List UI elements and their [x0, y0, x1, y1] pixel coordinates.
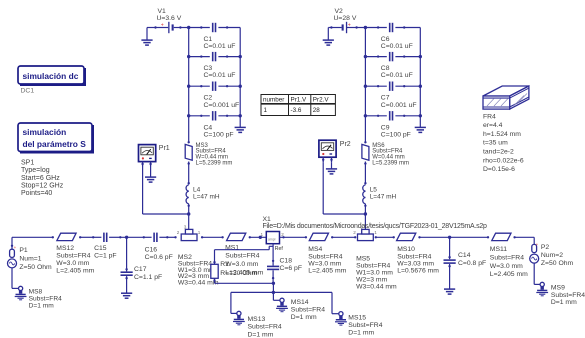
svg-text:C15: C15: [94, 245, 107, 252]
svg-text:Z=50 Ohm: Z=50 Ohm: [541, 260, 574, 267]
svg-text:C=100 pF: C=100 pF: [204, 131, 234, 138]
ground at right rail of C1-C4 bank: [235, 116, 246, 133]
svg-text:DC1: DC1: [21, 87, 35, 94]
inductor L4: [186, 182, 190, 207]
svg-text:+: +: [14, 245, 17, 250]
svg-text:C=100 pF: C=100 pF: [381, 131, 411, 138]
svg-text:Pr1: Pr1: [159, 145, 170, 152]
capacitor C7: [364, 82, 421, 91]
svg-text:W3=0.44 mm: W3=0.44 mm: [356, 283, 397, 290]
svg-text:MS12: MS12: [56, 245, 74, 252]
svg-text:P2: P2: [541, 244, 550, 251]
V2 labels: [334, 8, 357, 22]
microstrip line MS12: [57, 233, 76, 240]
Pr1 probe legs: [141, 162, 151, 167]
svg-text:C=0.01 uF: C=0.01 uF: [381, 72, 413, 79]
svg-text:V2: V2: [335, 8, 344, 15]
svg-text:C=0.6 pF: C=0.6 pF: [145, 254, 173, 261]
MS14 labels: [291, 299, 325, 321]
microstrip line MS1: [227, 233, 246, 240]
svg-text:C14: C14: [458, 252, 471, 259]
svg-text:t=35 um: t=35 um: [483, 140, 508, 147]
wire L5 to MS5 tee: [364, 204, 366, 230]
MS5 pin numbers: [353, 225, 377, 235]
svg-text:3: 3: [360, 225, 363, 230]
ground via rail wire: [231, 291, 332, 293]
svg-text:W1=3.0 mm: W1=3.0 mm: [356, 269, 393, 276]
port P1: [8, 237, 17, 268]
svg-text:C2: C2: [204, 95, 213, 102]
svg-text:2: 2: [353, 230, 356, 235]
svg-text:Pr1.V: Pr1.V: [291, 97, 308, 104]
wire to MS13: [231, 292, 237, 313]
feedback loop top wire: [215, 246, 274, 249]
MS8 labels: [29, 288, 63, 309]
capacitor C14 shunt: [444, 237, 456, 289]
svg-text:er=4.4: er=4.4: [483, 122, 503, 129]
wire MS2 to MS1: [201, 236, 224, 238]
svg-text:C6: C6: [381, 36, 390, 43]
svg-text:R1: R1: [220, 261, 229, 268]
C1 labels: [204, 36, 236, 50]
svg-text:number: number: [263, 97, 284, 104]
voltmeter probe Pr2: [319, 140, 336, 157]
two-port device X1: [261, 232, 285, 244]
svg-text:C16: C16: [145, 247, 158, 254]
svg-text:W=3.0 mm: W=3.0 mm: [490, 263, 523, 270]
svg-text:L=5.2399 mm: L=5.2399 mm: [196, 160, 233, 166]
MS11 labels: [490, 246, 528, 278]
svg-text:C9: C9: [381, 124, 390, 131]
capacitor C17 shunt: [121, 237, 133, 293]
substrate FR4 symbol: [483, 86, 529, 109]
capacitor C2: [187, 82, 240, 91]
wire MS3 to L4: [188, 162, 190, 185]
svg-text:Subst=FR4: Subst=FR4: [225, 253, 259, 260]
ground under Pr2: [326, 162, 337, 174]
microstrip line MS11: [487, 233, 516, 240]
svg-text:Num=2: Num=2: [541, 252, 563, 259]
port P2: [530, 242, 539, 263]
capacitor C18: [267, 266, 279, 284]
capacitor C8: [364, 52, 421, 61]
svg-text:W=3.03 mm: W=3.03 mm: [397, 260, 434, 267]
svg-text:MS10: MS10: [397, 246, 415, 253]
svg-text:W2=3 mm: W2=3 mm: [356, 276, 387, 283]
junction C18 bottom: [272, 282, 275, 285]
svg-text:Subst=FR4: Subst=FR4: [348, 322, 382, 329]
wire MS12 to C15: [79, 236, 94, 238]
svg-text:ampl: ampl: [268, 238, 276, 242]
C14 labels: [458, 252, 486, 267]
wire to MS14: [273, 299, 279, 301]
svg-text:Pr2: Pr2: [340, 141, 351, 148]
capacitor C9: [364, 111, 421, 120]
svg-text:Subst=FR4: Subst=FR4: [397, 253, 431, 260]
svg-text:Subst=FR4: Subst=FR4: [56, 253, 90, 260]
MS2 pin numbers: [177, 225, 201, 235]
X1 name label: [263, 216, 272, 223]
P2 labels: [541, 244, 574, 267]
svg-text:MS8: MS8: [29, 288, 43, 295]
svg-text:C18: C18: [280, 258, 293, 265]
svg-text:C8: C8: [381, 65, 390, 72]
ground under Pr1: [145, 167, 156, 183]
svg-text:MS5: MS5: [356, 255, 370, 262]
svg-text:C=0.001 uF: C=0.001 uF: [204, 102, 240, 109]
wire P1 to MS8: [12, 268, 19, 289]
svg-text:P1: P1: [19, 247, 28, 254]
svg-text:3: 3: [184, 225, 187, 230]
svg-text:h=1.524 mm: h=1.524 mm: [483, 131, 521, 138]
MS12 labels: [56, 245, 94, 274]
dc simulation box DC1: [18, 66, 86, 86]
wire MS5 to MS10: [354, 236, 395, 238]
wire V1 ground to battery: [147, 27, 156, 29]
svg-text:Type=log: Type=log: [21, 167, 50, 174]
battery V1: [154, 22, 181, 33]
svg-text:C=1.1 pF: C=1.1 pF: [134, 274, 162, 281]
svg-text:D=1 mm: D=1 mm: [348, 330, 374, 337]
C15 labels: [94, 245, 116, 259]
microstrip via MS8: [15, 286, 27, 300]
svg-text:Ref: Ref: [275, 246, 284, 252]
svg-text:W=3.0 mm: W=3.0 mm: [56, 260, 89, 267]
Pr1 label: [159, 145, 170, 152]
svg-text:Subst=FR4: Subst=FR4: [29, 295, 63, 302]
MS9 labels: [551, 285, 585, 307]
wire C18 to via rail: [272, 283, 274, 300]
svg-text:MS4: MS4: [308, 246, 322, 253]
DC1 label: [21, 87, 35, 94]
C9 labels: [381, 124, 411, 138]
capacitor C15: [93, 233, 121, 242]
C17 labels: [134, 266, 162, 281]
svg-text:Num=1: Num=1: [19, 256, 41, 263]
wire MS1 to X1: [249, 236, 267, 239]
Pr2 probe legs: [322, 157, 333, 162]
wire MS6 to L5: [364, 162, 366, 185]
MS3 labels: [196, 143, 233, 166]
junction C17 tap: [125, 236, 128, 239]
C3 labels: [204, 65, 236, 79]
svg-text:D=0.15e-6: D=0.15e-6: [483, 166, 515, 173]
svg-text:Pr2.V: Pr2.V: [313, 97, 330, 104]
svg-text:Subst=FR4: Subst=FR4: [308, 253, 342, 260]
svg-text:L=2.405 mm: L=2.405 mm: [490, 271, 528, 278]
svg-text:C1: C1: [204, 36, 213, 43]
svg-text:L=5.2399 mm: L=5.2399 mm: [372, 160, 409, 166]
svg-text:del parámetro S: del parámetro S: [23, 139, 87, 149]
svg-text:L=47 mH: L=47 mH: [370, 193, 397, 200]
X1 file label: [263, 223, 488, 230]
measurement table: [261, 95, 335, 116]
svg-text:C=6 pF: C=6 pF: [280, 265, 302, 272]
svg-text:Subst=FR4: Subst=FR4: [356, 262, 390, 269]
svg-text:C=0.01 uF: C=0.01 uF: [381, 43, 413, 50]
wire MS10 to MS11: [420, 236, 489, 238]
ground under C17: [121, 293, 132, 298]
svg-text:V1: V1: [158, 8, 167, 15]
MS2 labels: [178, 254, 219, 286]
microstrip via MS13: [233, 311, 245, 325]
wire Pr2 to V2 rail: [323, 162, 365, 214]
wire X1 to MS4: [280, 236, 306, 238]
capacitor C6: [365, 23, 420, 32]
wire V2 to node: [357, 27, 366, 29]
microstrip line MS4: [305, 233, 334, 240]
MS5 labels: [356, 255, 397, 290]
SP1 parameter labels: [21, 159, 64, 197]
capacitor C4: [187, 111, 240, 120]
svg-text:U=3.6 V: U=3.6 V: [157, 15, 182, 22]
svg-text:1: 1: [374, 230, 377, 235]
svg-text:C3: C3: [204, 65, 213, 72]
V1 labels: [157, 8, 182, 22]
junction Pr1 on rail: [187, 212, 190, 215]
svg-text:tand=2e-2: tand=2e-2: [483, 149, 514, 156]
svg-text:L=0.5676 mm: L=0.5676 mm: [397, 268, 439, 275]
svg-text:Subst=FR4: Subst=FR4: [248, 324, 282, 331]
svg-text:L=2.405 mm: L=2.405 mm: [56, 267, 94, 274]
ground under V2: [323, 28, 334, 46]
MS15 labels: [348, 314, 382, 336]
svg-text:rho=0.022e-6: rho=0.022e-6: [483, 157, 524, 164]
microstrip via MS15: [335, 312, 347, 326]
svg-text:C=0.8 pF: C=0.8 pF: [458, 260, 486, 267]
R1 labels: [220, 261, 257, 277]
wire to MS15: [332, 292, 339, 313]
MS10 labels: [397, 246, 439, 274]
svg-text:Subst=FR4: Subst=FR4: [291, 306, 325, 313]
wire V1 to node: [180, 27, 188, 29]
svg-text:L=47 mH: L=47 mH: [193, 193, 220, 200]
svg-text:+: +: [536, 242, 539, 247]
junction via rail: [272, 291, 275, 294]
svg-text:+: +: [161, 22, 164, 28]
wire P1 to MS12: [12, 236, 54, 238]
capacitor C3: [187, 52, 240, 61]
inductor L5: [363, 182, 367, 207]
svg-text:Subst=FR4: Subst=FR4: [490, 254, 524, 261]
C7 labels: [381, 95, 417, 109]
svg-text:+: +: [348, 22, 351, 28]
Pr2 label: [340, 141, 351, 148]
capacitor C1: [189, 23, 241, 32]
wire MS11 to P2: [515, 237, 535, 244]
microstrip line MS3: [185, 141, 192, 165]
wire Pr1 to V1 rail: [143, 167, 189, 215]
wire X1 ref to C18: [272, 244, 274, 266]
microstrip via MS14: [276, 298, 288, 312]
svg-text:MS15: MS15: [348, 314, 366, 321]
C8 labels: [381, 65, 413, 79]
FR4 labels: [483, 113, 524, 173]
svg-text:MS11: MS11: [490, 246, 507, 253]
svg-text:C=0.001 uF: C=0.001 uF: [381, 102, 417, 109]
C4 labels: [204, 124, 234, 138]
svg-text:C=1 pF: C=1 pF: [94, 253, 116, 260]
svg-text:Start=6 GHz: Start=6 GHz: [21, 175, 60, 182]
svg-text:C=0.01 uF: C=0.01 uF: [204, 72, 236, 79]
microstrip tee MS2: [181, 229, 197, 240]
C16 labels: [145, 247, 173, 261]
svg-text:D=1 mm: D=1 mm: [248, 331, 274, 338]
svg-text:Points=40: Points=40: [21, 190, 52, 197]
wire C15 to C16: [120, 236, 144, 238]
right rail of C6-C9 bank: [419, 28, 422, 118]
L4 labels: [193, 186, 220, 200]
right rail of C1-C4 bank: [239, 28, 242, 118]
svg-text:1: 1: [264, 107, 268, 114]
svg-text:D=1 mm: D=1 mm: [291, 314, 317, 321]
ground under V1: [141, 28, 152, 46]
MS4 labels: [308, 246, 346, 274]
svg-text:W3=0.44 mm: W3=0.44 mm: [178, 280, 219, 287]
svg-text:SP1: SP1: [21, 159, 34, 166]
svg-text:FR4: FR4: [483, 113, 496, 120]
svg-text:C4: C4: [204, 124, 213, 131]
svg-text:Stop=12 GHz: Stop=12 GHz: [21, 182, 64, 189]
S-parameter simulation box SP1: [18, 123, 94, 154]
svg-text:1: 1: [261, 232, 264, 237]
wire C16 to MS2: [167, 236, 176, 238]
node V1 rail: [187, 26, 190, 29]
svg-text:MS1: MS1: [225, 244, 239, 251]
wire V2 ground to battery: [328, 27, 332, 29]
L5 labels: [370, 186, 397, 200]
MS13 labels: [248, 316, 282, 338]
svg-text:D=1 mm: D=1 mm: [29, 302, 55, 309]
svg-text:W=3.0 mm: W=3.0 mm: [225, 261, 258, 268]
microstrip line MS6: [362, 141, 369, 165]
P1 labels: [19, 247, 52, 271]
microstrip tee MS5: [358, 229, 374, 240]
MS6 labels: [372, 143, 409, 166]
feedback loop bottom wire: [215, 282, 274, 284]
wire P2 to MS9: [534, 263, 540, 284]
svg-text:-3.6: -3.6: [291, 107, 302, 114]
C18 labels: [280, 258, 302, 273]
voltmeter probe Pr1: [139, 145, 156, 162]
svg-text:D=1 mm: D=1 mm: [551, 299, 577, 306]
junction C14 tap: [448, 236, 451, 239]
svg-text:C7: C7: [381, 95, 390, 102]
X1 Ref pin label: [275, 246, 284, 252]
left rail of C1-C4 bank segment: [188, 28, 190, 143]
svg-text:MS13: MS13: [248, 316, 266, 323]
svg-text:MS9: MS9: [551, 285, 565, 292]
svg-text:simulación: simulación: [23, 127, 67, 137]
microstrip line MS10: [397, 233, 421, 240]
capacitor C16: [143, 233, 169, 242]
wire MS4 to MS5: [332, 236, 355, 238]
battery V2: [330, 22, 358, 33]
svg-text:C17: C17: [134, 266, 147, 273]
resistor R1: [211, 250, 218, 284]
svg-text:L=2.405 mm: L=2.405 mm: [308, 268, 346, 275]
left rail of C6-C9 bank segment: [364, 28, 366, 143]
svg-text:MS14: MS14: [291, 299, 309, 306]
node V2 rail: [364, 26, 367, 29]
svg-text:W=3.0 mm: W=3.0 mm: [308, 260, 341, 267]
wire L4 to MS2 tee: [188, 204, 190, 230]
microstrip via MS9: [536, 282, 548, 296]
svg-text:simulación dc: simulación dc: [23, 71, 79, 81]
svg-text:Subst=FR4: Subst=FR4: [551, 292, 585, 299]
svg-text:1: 1: [198, 230, 201, 235]
C6 labels: [381, 36, 413, 50]
svg-text:U=28 V: U=28 V: [334, 15, 357, 22]
svg-text:Z=50 Ohm: Z=50 Ohm: [19, 264, 52, 271]
junction Pr2 on rail: [364, 212, 367, 215]
svg-text:28: 28: [313, 107, 321, 114]
ground at right rail of C6-C9 bank: [415, 116, 426, 133]
svg-text:C=0.01 uF: C=0.01 uF: [204, 43, 236, 50]
svg-text:2: 2: [177, 230, 180, 235]
ground under C14: [444, 289, 455, 294]
C2 labels: [204, 95, 240, 109]
svg-text:R=130 Ohm: R=130 Ohm: [220, 270, 257, 277]
MS1 labels: [225, 244, 264, 276]
